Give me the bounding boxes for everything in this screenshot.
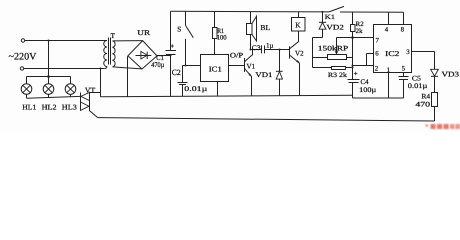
- svg-text:IC2: IC2: [385, 49, 400, 58]
- diode VD2: [319, 12, 326, 38]
- svg-text:BL: BL: [260, 23, 270, 32]
- label UR: [137, 29, 150, 37]
- svg-text:0.01µ: 0.01µ: [184, 85, 207, 93]
- label K1: [325, 14, 336, 21]
- label ~220V: [9, 52, 38, 63]
- svg-text:7: 7: [376, 38, 380, 45]
- label BL: [260, 23, 270, 32]
- label pin 7: [376, 38, 380, 45]
- svg-text:8: 8: [401, 27, 405, 34]
- resistor R3: [313, 67, 353, 70]
- svg-text:0.01µ: 0.01µ: [408, 82, 428, 90]
- capacitor C4: [348, 72, 360, 83]
- wire triac MT2 to neutral: [90, 93, 101, 97]
- capacitor C3: [262, 45, 265, 53]
- node junction lamp bus: [47, 75, 50, 78]
- svg-text:100: 100: [217, 35, 227, 42]
- label VT: [85, 87, 96, 95]
- capacitor C1: [166, 11, 177, 96]
- svg-text:K1: K1: [325, 14, 336, 21]
- svg-text:2k: 2k: [356, 28, 364, 35]
- resistor R4: [432, 93, 438, 107]
- capacitor C2: [178, 66, 188, 97]
- speaker BL: [247, 12, 257, 50]
- wire ground rail left: [101, 95, 353, 97]
- svg-text:150kRP: 150kRP: [318, 45, 349, 53]
- label pin 2: [375, 66, 379, 73]
- wire pin8 stub: [403, 12, 405, 24]
- svg-text:C3: C3: [252, 44, 261, 52]
- wire timing bus vertical: [352, 38, 354, 99]
- label pin 8: [401, 27, 405, 34]
- label C4: [361, 78, 369, 86]
- svg-text:IC1: IC1: [209, 65, 222, 74]
- wire pin6 jog: [367, 54, 374, 66]
- label 0.01u C2: [184, 85, 207, 93]
- label S: [177, 26, 181, 34]
- label O/P: [230, 52, 243, 60]
- wire bridge plus to C1: [157, 55, 171, 57]
- wire V1 collector to C3: [251, 49, 262, 51]
- wire secondary top to bridge: [113, 40, 143, 42]
- timer IC2 box: [374, 25, 412, 73]
- potentiometer RP wiper: [335, 38, 338, 55]
- label 100u: [359, 86, 376, 94]
- transistor V2: [290, 31, 300, 96]
- svg-text:S: S: [177, 26, 181, 34]
- svg-text:C2: C2: [172, 68, 181, 77]
- wire bottom gate rail: [98, 107, 435, 122]
- transistor V1: [245, 50, 253, 96]
- label IC1: [209, 65, 222, 74]
- svg-text:VD1: VD1: [255, 71, 273, 79]
- terminal lower AC input: [20, 67, 23, 70]
- svg-text:HL1: HL1: [22, 103, 36, 111]
- wire lamp feed vertical: [48, 41, 50, 77]
- node junction C1 lead: [170, 55, 172, 57]
- switch S: [186, 11, 194, 65]
- svg-text:VD3: VD3: [442, 71, 460, 79]
- node junction VD2 rail: [322, 11, 324, 13]
- label 0.01u C5: [408, 82, 428, 90]
- wire pin4 stub: [388, 12, 390, 24]
- svg-text:V1: V1: [247, 63, 256, 71]
- label 100: [217, 35, 227, 42]
- svg-text:VT: VT: [85, 87, 96, 95]
- wire top AC line: [25, 40, 107, 42]
- svg-text:R3 2k: R3 2k: [328, 72, 348, 79]
- svg-text:470µ: 470µ: [151, 61, 164, 69]
- wire IC1 output: [229, 65, 245, 67]
- lamp HL1: [21, 84, 32, 95]
- svg-text:T: T: [111, 32, 116, 40]
- node junction top wire: [48, 40, 50, 42]
- svg-text:UR: UR: [137, 29, 150, 37]
- wire lamp top bus: [27, 76, 71, 78]
- label pin 4: [385, 27, 389, 34]
- wire VD2 to left bus: [313, 37, 323, 39]
- relay contact K1: [329, 6, 404, 12]
- wire RP R3 left bus: [312, 38, 314, 68]
- node junction VD1 top: [279, 49, 281, 51]
- diode VD1: [276, 50, 283, 96]
- svg-text:O/P: O/P: [230, 52, 243, 60]
- svg-text:HL3: HL3: [62, 103, 77, 111]
- bridge rectifier UR inner diode: [136, 51, 152, 59]
- label R2: [356, 21, 364, 28]
- wire pin3 output: [412, 52, 435, 70]
- wire triac gate lead: [90, 111, 98, 118]
- bridge rectifier UR diamond: [128, 41, 157, 69]
- svg-text:R4: R4: [421, 93, 430, 101]
- lamp HL2: [43, 84, 54, 95]
- label HL3: [62, 103, 77, 111]
- wire C3 to V2 base: [265, 49, 290, 51]
- svg-text:K: K: [295, 21, 301, 30]
- wire bridge minus drop: [127, 56, 129, 96]
- label 2k R2: [356, 28, 364, 35]
- node junction V1 collector: [250, 49, 252, 51]
- potentiometer RP: [313, 55, 353, 60]
- wire ground rail right: [353, 97, 404, 99]
- label VD1: [255, 71, 273, 79]
- label T: [111, 32, 116, 40]
- relay K: [292, 12, 306, 31]
- label C2: [172, 68, 181, 77]
- resistor R2: [351, 12, 356, 38]
- wire positive top rail: [171, 10, 330, 13]
- svg-text:VD2: VD2: [326, 24, 344, 32]
- label 1u: [266, 43, 274, 50]
- label C3: [252, 44, 261, 52]
- svg-text:1µ: 1µ: [266, 43, 274, 50]
- label HL1: [22, 103, 36, 111]
- svg-text:3: 3: [406, 49, 410, 56]
- transformer T core: [109, 38, 111, 65]
- svg-text:~220V: ~220V: [9, 52, 38, 63]
- svg-text:C4: C4: [361, 78, 369, 86]
- terminal upper AC input: [21, 39, 24, 42]
- lamp HL3: [65, 84, 76, 95]
- svg-text:2: 2: [375, 66, 379, 73]
- wire AC neutral drop: [100, 69, 102, 93]
- label R1: [217, 28, 224, 35]
- label VD3: [442, 71, 460, 79]
- node junction R3 right: [352, 67, 354, 69]
- label V2: [295, 49, 304, 57]
- svg-text:6: 6: [375, 51, 379, 58]
- label R3 2k: [328, 72, 348, 79]
- wire wiper to pin7: [337, 37, 374, 39]
- wire lamp bottom bus: [27, 96, 81, 98]
- wire pin2 wire: [353, 65, 374, 67]
- svg-text:V2: V2: [295, 49, 304, 57]
- label K: [295, 21, 301, 30]
- label 470: [415, 100, 430, 108]
- wire lamp stubs bottom: [27, 94, 71, 98]
- label 470u: [151, 61, 164, 69]
- node junction neutral tap: [100, 68, 102, 70]
- wire pin1 ground stub: [388, 73, 390, 99]
- wire secondary bottom to bridge: [113, 67, 143, 69]
- label pin 3: [406, 49, 410, 56]
- node junction pin2: [352, 65, 354, 67]
- wire lower AC line: [24, 68, 104, 70]
- node junction S bottom: [185, 65, 187, 67]
- label 150kRP: [318, 45, 349, 53]
- label C5: [412, 75, 422, 83]
- label HL2: [42, 103, 57, 111]
- svg-text:470: 470: [415, 100, 430, 108]
- label pin 6: [375, 51, 379, 58]
- wire IC1 input: [183, 65, 201, 67]
- op-amp IC1 box: [201, 55, 229, 82]
- label R4: [421, 93, 430, 101]
- svg-text:5: 5: [402, 66, 406, 73]
- transformer T secondary winding: [113, 41, 116, 67]
- wire lamp stubs top: [27, 77, 71, 84]
- triac VT: [81, 92, 90, 111]
- label C1: [156, 54, 164, 62]
- svg-text:100µ: 100µ: [359, 86, 376, 94]
- diode VD3: [431, 69, 439, 92]
- label VD2: [326, 24, 344, 32]
- transformer T primary winding: [104, 41, 107, 67]
- node junction R2 bottom: [351, 36, 354, 39]
- watermark red logo: [426, 124, 460, 129]
- wire IC1 ground stub: [217, 82, 219, 97]
- svg-text:HL2: HL2: [42, 103, 57, 111]
- svg-text:4: 4: [385, 27, 389, 34]
- resistor R1: [213, 12, 218, 55]
- label pin 5: [402, 66, 406, 73]
- wire primary bottom hook: [104, 67, 107, 69]
- label IC2: [385, 49, 400, 58]
- label pin 1: [387, 67, 390, 74]
- label V1: [247, 63, 256, 71]
- capacitor C5: [399, 73, 409, 99]
